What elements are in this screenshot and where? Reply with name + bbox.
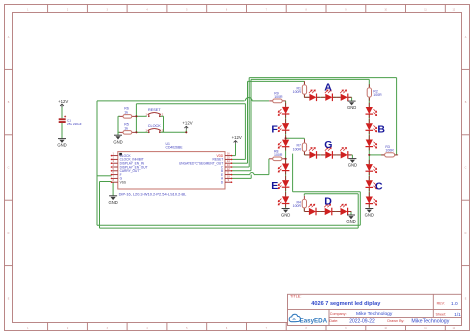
wire F seg 1 — [285, 101, 287, 107]
LED segment B #3 — [366, 135, 377, 150]
svg-text:Sheet:: Sheet: — [436, 313, 447, 317]
wire G seg 3 — [333, 154, 341, 156]
wire left loop to pin F — [97, 175, 112, 177]
wire pin10 hook vertical — [250, 175, 252, 179]
wire D-wrap inner right — [357, 194, 359, 228]
wire +12V to VDD — [235, 144, 237, 156]
wire +12V to C1 — [61, 106, 63, 119]
wire C to GND — [368, 203, 370, 208]
wire C1 to GND — [61, 123, 63, 139]
wire C seg 3 — [368, 187, 370, 196]
svg-text:CLOCK: CLOCK — [148, 124, 162, 128]
wire D-wrap outer right — [359, 192, 361, 225]
wire pin15 vertical — [244, 104, 246, 160]
LED segment D #3 — [336, 204, 351, 215]
wire bottom rail outer — [97, 224, 360, 226]
svg-text:G: G — [324, 139, 332, 151]
wire pin13 vertical to rail C — [248, 78, 250, 167]
LED segment B #2 — [366, 119, 377, 134]
IC U1 CD4026BE — [111, 152, 233, 189]
wire D-wrap inner top — [304, 193, 358, 195]
wire rail B — [251, 78, 369, 80]
wire into R3 right — [395, 154, 397, 156]
LED segment E #2 — [278, 176, 289, 191]
LED segment E #1 — [278, 159, 289, 174]
wire pin14 vertical to rail A — [247, 81, 249, 163]
wire rail RESET — [136, 103, 245, 105]
wire rail B into R2 — [368, 79, 370, 87]
svg-text:RESET: RESET — [148, 108, 161, 112]
svg-text:+12V: +12V — [182, 121, 192, 126]
wire D to GND — [350, 212, 352, 216]
wire left loop vertical — [96, 101, 98, 225]
wire E seg 3 — [285, 187, 287, 196]
wire A to GND — [351, 97, 353, 101]
pushbutton CLOCK — [148, 129, 161, 134]
resistor R9 — [269, 99, 286, 103]
wire D seg 3 — [332, 211, 340, 213]
svg-text:D: D — [324, 195, 332, 207]
svg-text:F: F — [271, 124, 278, 136]
LED segment E #3 — [278, 192, 289, 207]
svg-text:B: B — [377, 123, 385, 135]
LED segment A #3 — [336, 90, 351, 101]
wire C seg 2 — [368, 171, 370, 180]
resistor R7 — [302, 139, 306, 155]
svg-text:CD4026BE: CD4026BE — [166, 146, 184, 150]
wire VDD stub — [232, 155, 236, 157]
LED segment C #1 — [366, 160, 377, 175]
wire RESET pin2 — [160, 115, 164, 117]
svg-text:TITLE:: TITLE: — [290, 295, 301, 299]
wire R4 to D leds — [303, 208, 305, 212]
svg-text:Mike Technology: Mike Technology — [356, 311, 393, 317]
LED segment G #2 — [321, 148, 336, 159]
wire R1 to A leds — [303, 95, 305, 98]
wire R5 to CLOCK — [135, 131, 148, 133]
svg-text:100R: 100R — [274, 153, 283, 157]
wire B to C junction — [368, 146, 370, 164]
ground (segment E) — [282, 209, 290, 213]
svg-text:100R: 100R — [293, 204, 302, 208]
wire rail C — [249, 77, 396, 79]
wire B seg 2 — [368, 114, 370, 123]
title block — [288, 294, 462, 325]
svg-text:GND: GND — [281, 213, 290, 218]
ground (U1 VSS) — [109, 196, 117, 200]
wire D-wrap outer top — [293, 191, 361, 193]
wire G feed tap — [286, 137, 305, 139]
svg-text:100R: 100R — [274, 95, 283, 99]
wire inner-left vertical — [99, 182, 101, 229]
svg-text:2022-09-22: 2022-09-22 — [349, 318, 375, 324]
LED segment A #1 — [305, 90, 320, 101]
svg-text:Drawn By:: Drawn By: — [387, 319, 404, 323]
ground (segment C) — [365, 209, 373, 213]
svg-text:D: D — [465, 232, 467, 235]
wire F seg 2 — [285, 114, 287, 123]
junction +12V node — [185, 131, 187, 133]
wire R7 to G leds — [303, 151, 305, 155]
wire E to GND — [285, 203, 287, 208]
resistor R1 — [302, 81, 306, 98]
svg-text:100R: 100R — [373, 93, 382, 97]
ground (buttons) — [114, 135, 122, 139]
resistor R3 — [381, 153, 398, 157]
svg-text:GND: GND — [347, 105, 356, 110]
junction G tap on F column — [285, 137, 287, 139]
wire E feed jog — [268, 158, 271, 160]
LED segment C #2 — [366, 176, 377, 191]
wire pin14 A — [232, 162, 248, 164]
svg-text:VSS: VSS — [120, 181, 126, 185]
wire CLOCK pin2 to +12V — [160, 131, 187, 133]
ground (C1) — [58, 139, 66, 143]
wire pin11 E line right — [254, 174, 269, 176]
wire RESET pin2 down — [163, 116, 165, 132]
wire left rail to GND (buttons) — [117, 116, 119, 135]
wire rail A — [248, 80, 305, 82]
wire E feed vertical — [268, 159, 270, 175]
wire inner-left to pin G row — [100, 181, 112, 183]
wire pin12 B — [232, 170, 252, 172]
LED segment G #1 — [305, 148, 320, 159]
LED segment F #1 — [278, 103, 289, 118]
svg-text:E: E — [271, 180, 278, 192]
svg-text:1.0: 1.0 — [451, 301, 458, 307]
wire E seg 2 — [285, 170, 287, 180]
svg-text:Company:: Company: — [330, 312, 347, 316]
resistor R2 — [367, 84, 371, 101]
wire F to E junction — [285, 147, 287, 164]
LED segment F #3 — [278, 135, 289, 150]
svg-text:A: A — [324, 81, 332, 93]
svg-text:GND: GND — [348, 163, 357, 168]
wire junction column — [135, 104, 137, 133]
wire rail F left part — [97, 100, 245, 102]
resistor R8 — [269, 157, 285, 161]
svg-text:CARRY_OUT: CARRY_OUT — [120, 169, 140, 173]
svg-text:DIP-16, L20.3-W10.2-P2.54-LS10: DIP-16, L20.3-W10.2-P2.54-LS10.2-BL — [119, 191, 188, 196]
wire R2 to B leds — [368, 98, 370, 107]
junction CLOCK node — [135, 131, 137, 133]
wire +12V stem (buttons) — [185, 130, 187, 133]
resistor R4 — [302, 196, 306, 212]
wire D seg 1 — [304, 211, 309, 213]
ground (segment G) — [348, 159, 356, 163]
resistor R6 — [120, 115, 136, 119]
svg-text:GND: GND — [365, 213, 374, 218]
wire pin10 hook — [232, 177, 252, 179]
wire bottom rail inner — [100, 227, 359, 229]
wire hop (rail F over bus) — [245, 98, 252, 101]
svg-text:MikeTechnology: MikeTechnology — [411, 318, 449, 324]
svg-text:C: C — [375, 181, 383, 193]
wire pin13 C — [232, 166, 250, 168]
LED segment C #3 — [366, 192, 377, 207]
wire D-wrap outer left vertical — [292, 154, 294, 192]
wire rail C down — [396, 78, 398, 155]
wire D feed stub — [303, 194, 305, 196]
wire G seg 4 — [348, 154, 352, 156]
wire G seg 2 — [317, 154, 325, 156]
wire pin11 E line left — [232, 174, 250, 176]
wire R6 left — [118, 115, 120, 117]
svg-text:100R: 100R — [385, 149, 394, 153]
wire B seg 3 — [368, 130, 370, 139]
wire A seg 4 — [348, 96, 351, 98]
junction RESET node — [135, 115, 137, 117]
ground (segment D) — [347, 215, 355, 219]
svg-text:100R: 100R — [293, 90, 302, 94]
svg-text:+12V: +12V — [58, 99, 68, 104]
svg-text:UNGATED"C"SEGMENT_OUT: UNGATED"C"SEGMENT_OUT — [179, 162, 223, 166]
LED segment B #1 — [366, 103, 377, 118]
junction F/E node — [285, 158, 287, 160]
wire junction to R3 — [369, 154, 384, 156]
wire R6 to RESET — [135, 115, 146, 117]
svg-text:GND: GND — [113, 139, 122, 144]
wire pin12 vertical to rail B — [250, 79, 252, 170]
wire A seg 2 — [317, 96, 325, 98]
svg-text:C: C — [8, 167, 10, 170]
wire pin15 RESET — [232, 158, 246, 160]
svg-text:25v 220uF: 25v 220uF — [67, 122, 82, 126]
LED segment G #3 — [336, 148, 351, 159]
svg-text:GND: GND — [346, 219, 355, 224]
wire hop (pin11 over bus) — [250, 173, 254, 175]
svg-text:+12V: +12V — [232, 135, 242, 140]
wire G to GND — [351, 155, 353, 159]
wire rail A into R1 — [303, 81, 305, 84]
LED segment A #2 — [321, 90, 336, 101]
wire G feed stub — [303, 138, 305, 139]
wire rail F right part — [252, 100, 269, 102]
svg-text:1k: 1k — [124, 126, 128, 130]
wire D seg 4 — [348, 211, 351, 213]
junction B/C node — [368, 154, 370, 156]
wire R8 to junction — [284, 158, 287, 160]
wire F seg 3 — [285, 130, 287, 140]
svg-text:1k: 1k — [124, 110, 128, 114]
wire D seg 2 — [316, 211, 324, 213]
wire A seg 3 — [333, 96, 341, 98]
svg-text:100R: 100R — [293, 147, 302, 151]
EasyEDA logo — [289, 314, 300, 321]
svg-text:4026 7 segment led diplay: 4026 7 segment led diplay — [311, 301, 381, 307]
svg-text:C: C — [465, 167, 467, 170]
wire G seg 1 — [304, 154, 309, 156]
wire VSS to GND — [112, 182, 114, 196]
resistor R5 — [120, 131, 136, 135]
svg-text:REV:: REV: — [437, 301, 445, 305]
ground (segment A) — [348, 101, 356, 105]
svg-text:Date:: Date: — [329, 319, 338, 323]
LED segment D #1 — [305, 204, 320, 215]
LED segment F #2 — [278, 119, 289, 134]
wire R5 left — [118, 131, 120, 133]
svg-text:GND: GND — [57, 143, 66, 148]
LED segment D #2 — [320, 204, 335, 215]
capacitor C1 — [59, 116, 66, 123]
wire A seg 1 — [304, 96, 309, 98]
svg-text:GND: GND — [108, 200, 117, 205]
svg-text:D: D — [8, 232, 10, 235]
svg-text:EasyEDA: EasyEDA — [300, 317, 328, 324]
wire R9 to F col — [284, 100, 286, 102]
pushbutton RESET — [148, 113, 161, 118]
svg-text:1/1: 1/1 — [454, 312, 461, 317]
